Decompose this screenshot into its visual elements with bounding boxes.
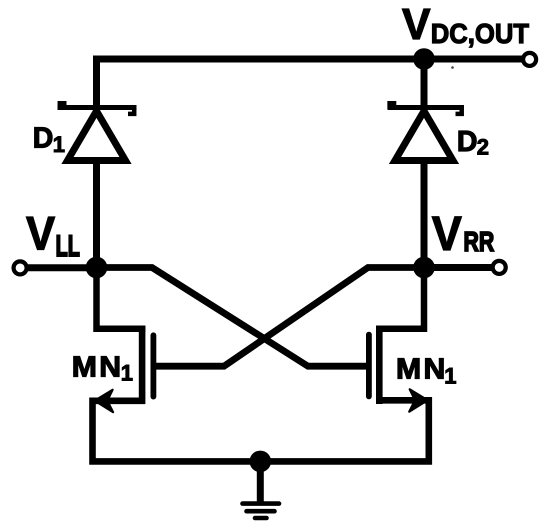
svg-text:1: 1 bbox=[53, 132, 65, 157]
svg-text:2: 2 bbox=[477, 135, 489, 160]
svg-text:LL: LL bbox=[56, 230, 80, 263]
svg-text:D: D bbox=[33, 123, 54, 155]
svg-text:MN: MN bbox=[72, 351, 124, 383]
svg-text:V: V bbox=[432, 207, 462, 261]
svg-text:MN: MN bbox=[396, 353, 448, 385]
svg-text:D: D bbox=[457, 126, 478, 158]
svg-text:V: V bbox=[402, 0, 431, 49]
svg-text:1: 1 bbox=[121, 361, 133, 386]
svg-text:V: V bbox=[26, 207, 56, 260]
svg-text:RR: RR bbox=[464, 226, 495, 258]
svg-text:1: 1 bbox=[444, 364, 456, 389]
svg-text:DC,OUT: DC,OUT bbox=[431, 18, 529, 49]
